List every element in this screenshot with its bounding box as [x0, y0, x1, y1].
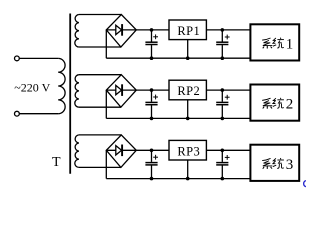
svg-text:2: 2 — [286, 97, 294, 113]
regulator RP1 box — [169, 20, 206, 40]
wire W2 top to bridge — [79, 74, 121, 76]
wire W3 top to bridge — [79, 134, 121, 136]
wire W1 bottom to bridge — [79, 46, 121, 48]
capacitor C11 — [145, 30, 158, 58]
svg-text:~220 V: ~220 V — [14, 81, 50, 95]
system box 2 — [250, 85, 299, 121]
bridge rectifier B2 diamond — [106, 75, 136, 108]
capacitor C31 — [145, 150, 158, 178]
node dot RP3 ground — [186, 177, 190, 181]
svg-text:RP2: RP2 — [177, 84, 200, 98]
node dot C12 top — [221, 28, 225, 32]
node dot C32 top — [221, 149, 225, 153]
node dot C21 bottom — [150, 117, 154, 121]
bridge B1 diode — [106, 24, 136, 36]
bridge rectifier B3 diamond — [106, 135, 136, 168]
node dot RP1 ground — [186, 56, 190, 60]
wire top terminal to primary coil — [19, 57, 58, 59]
node dot RP2 ground — [186, 117, 190, 121]
label 系统2 — [262, 98, 284, 109]
system box 1 — [250, 24, 299, 60]
svg-text:RP1: RP1 — [177, 24, 200, 38]
node dot C11 bottom — [150, 56, 154, 60]
node dot C22 top — [221, 88, 225, 92]
wire RP1 ground leg — [187, 40, 189, 59]
node dot C11 top — [150, 28, 154, 32]
secondary winding W2 — [75, 75, 79, 108]
wire B2 minus: left vertex down to rail — [105, 90, 107, 118]
negative rail row 2 — [106, 117, 250, 119]
node dot C12 bottom — [221, 56, 225, 60]
svg-text:1: 1 — [286, 36, 294, 52]
terminal bottom — [15, 111, 20, 116]
svg-text:RP3: RP3 — [177, 144, 200, 158]
system box 3 — [250, 145, 299, 181]
regulator RP3 box — [169, 140, 206, 160]
svg-text:3: 3 — [286, 157, 294, 173]
wire B3 plus output to system box — [136, 149, 250, 151]
transformer core — [69, 14, 71, 174]
capacitor C12 — [216, 30, 229, 58]
bridge rectifier B1 diamond — [106, 15, 136, 48]
wire B2 plus output to system box — [136, 89, 250, 91]
blue partial character at right edge — [304, 181, 306, 187]
regulator RP2 box — [169, 80, 206, 100]
node dot C22 bottom — [221, 117, 225, 121]
wire RP3 ground leg — [187, 160, 189, 179]
wire W1 top to bridge — [79, 14, 121, 16]
node dot C21 top — [150, 88, 154, 92]
secondary winding W3 — [75, 135, 79, 168]
wire W2 bottom to bridge — [79, 106, 121, 108]
wire RP2 ground leg — [187, 100, 189, 119]
svg-text:T: T — [52, 155, 61, 170]
capacitor C32 — [216, 150, 229, 178]
node dot C31 top — [150, 149, 154, 153]
label 系统1 (drawn glyphs) — [262, 38, 284, 49]
capacitor C22 — [216, 90, 229, 118]
bridge B3 diode — [106, 145, 136, 157]
secondary winding W1 — [75, 15, 79, 48]
capacitor C21 — [145, 90, 158, 118]
bridge B2 diode — [106, 84, 136, 96]
terminal top — [15, 56, 20, 61]
wire W3 bottom to bridge — [79, 166, 121, 168]
negative rail row 1 — [106, 57, 250, 59]
wire bottom terminal to primary coil — [19, 113, 58, 115]
wire B3 minus: left vertex down to rail — [105, 150, 107, 178]
node dot C31 bottom — [150, 177, 154, 181]
negative rail row 3 — [106, 178, 250, 180]
label 系统3 — [262, 158, 284, 169]
wire B1 minus: left vertex down to rail — [105, 30, 107, 58]
wire B1 plus output to system box — [136, 29, 250, 31]
node dot C32 bottom — [221, 177, 225, 181]
transformer T primary winding — [58, 58, 65, 113]
